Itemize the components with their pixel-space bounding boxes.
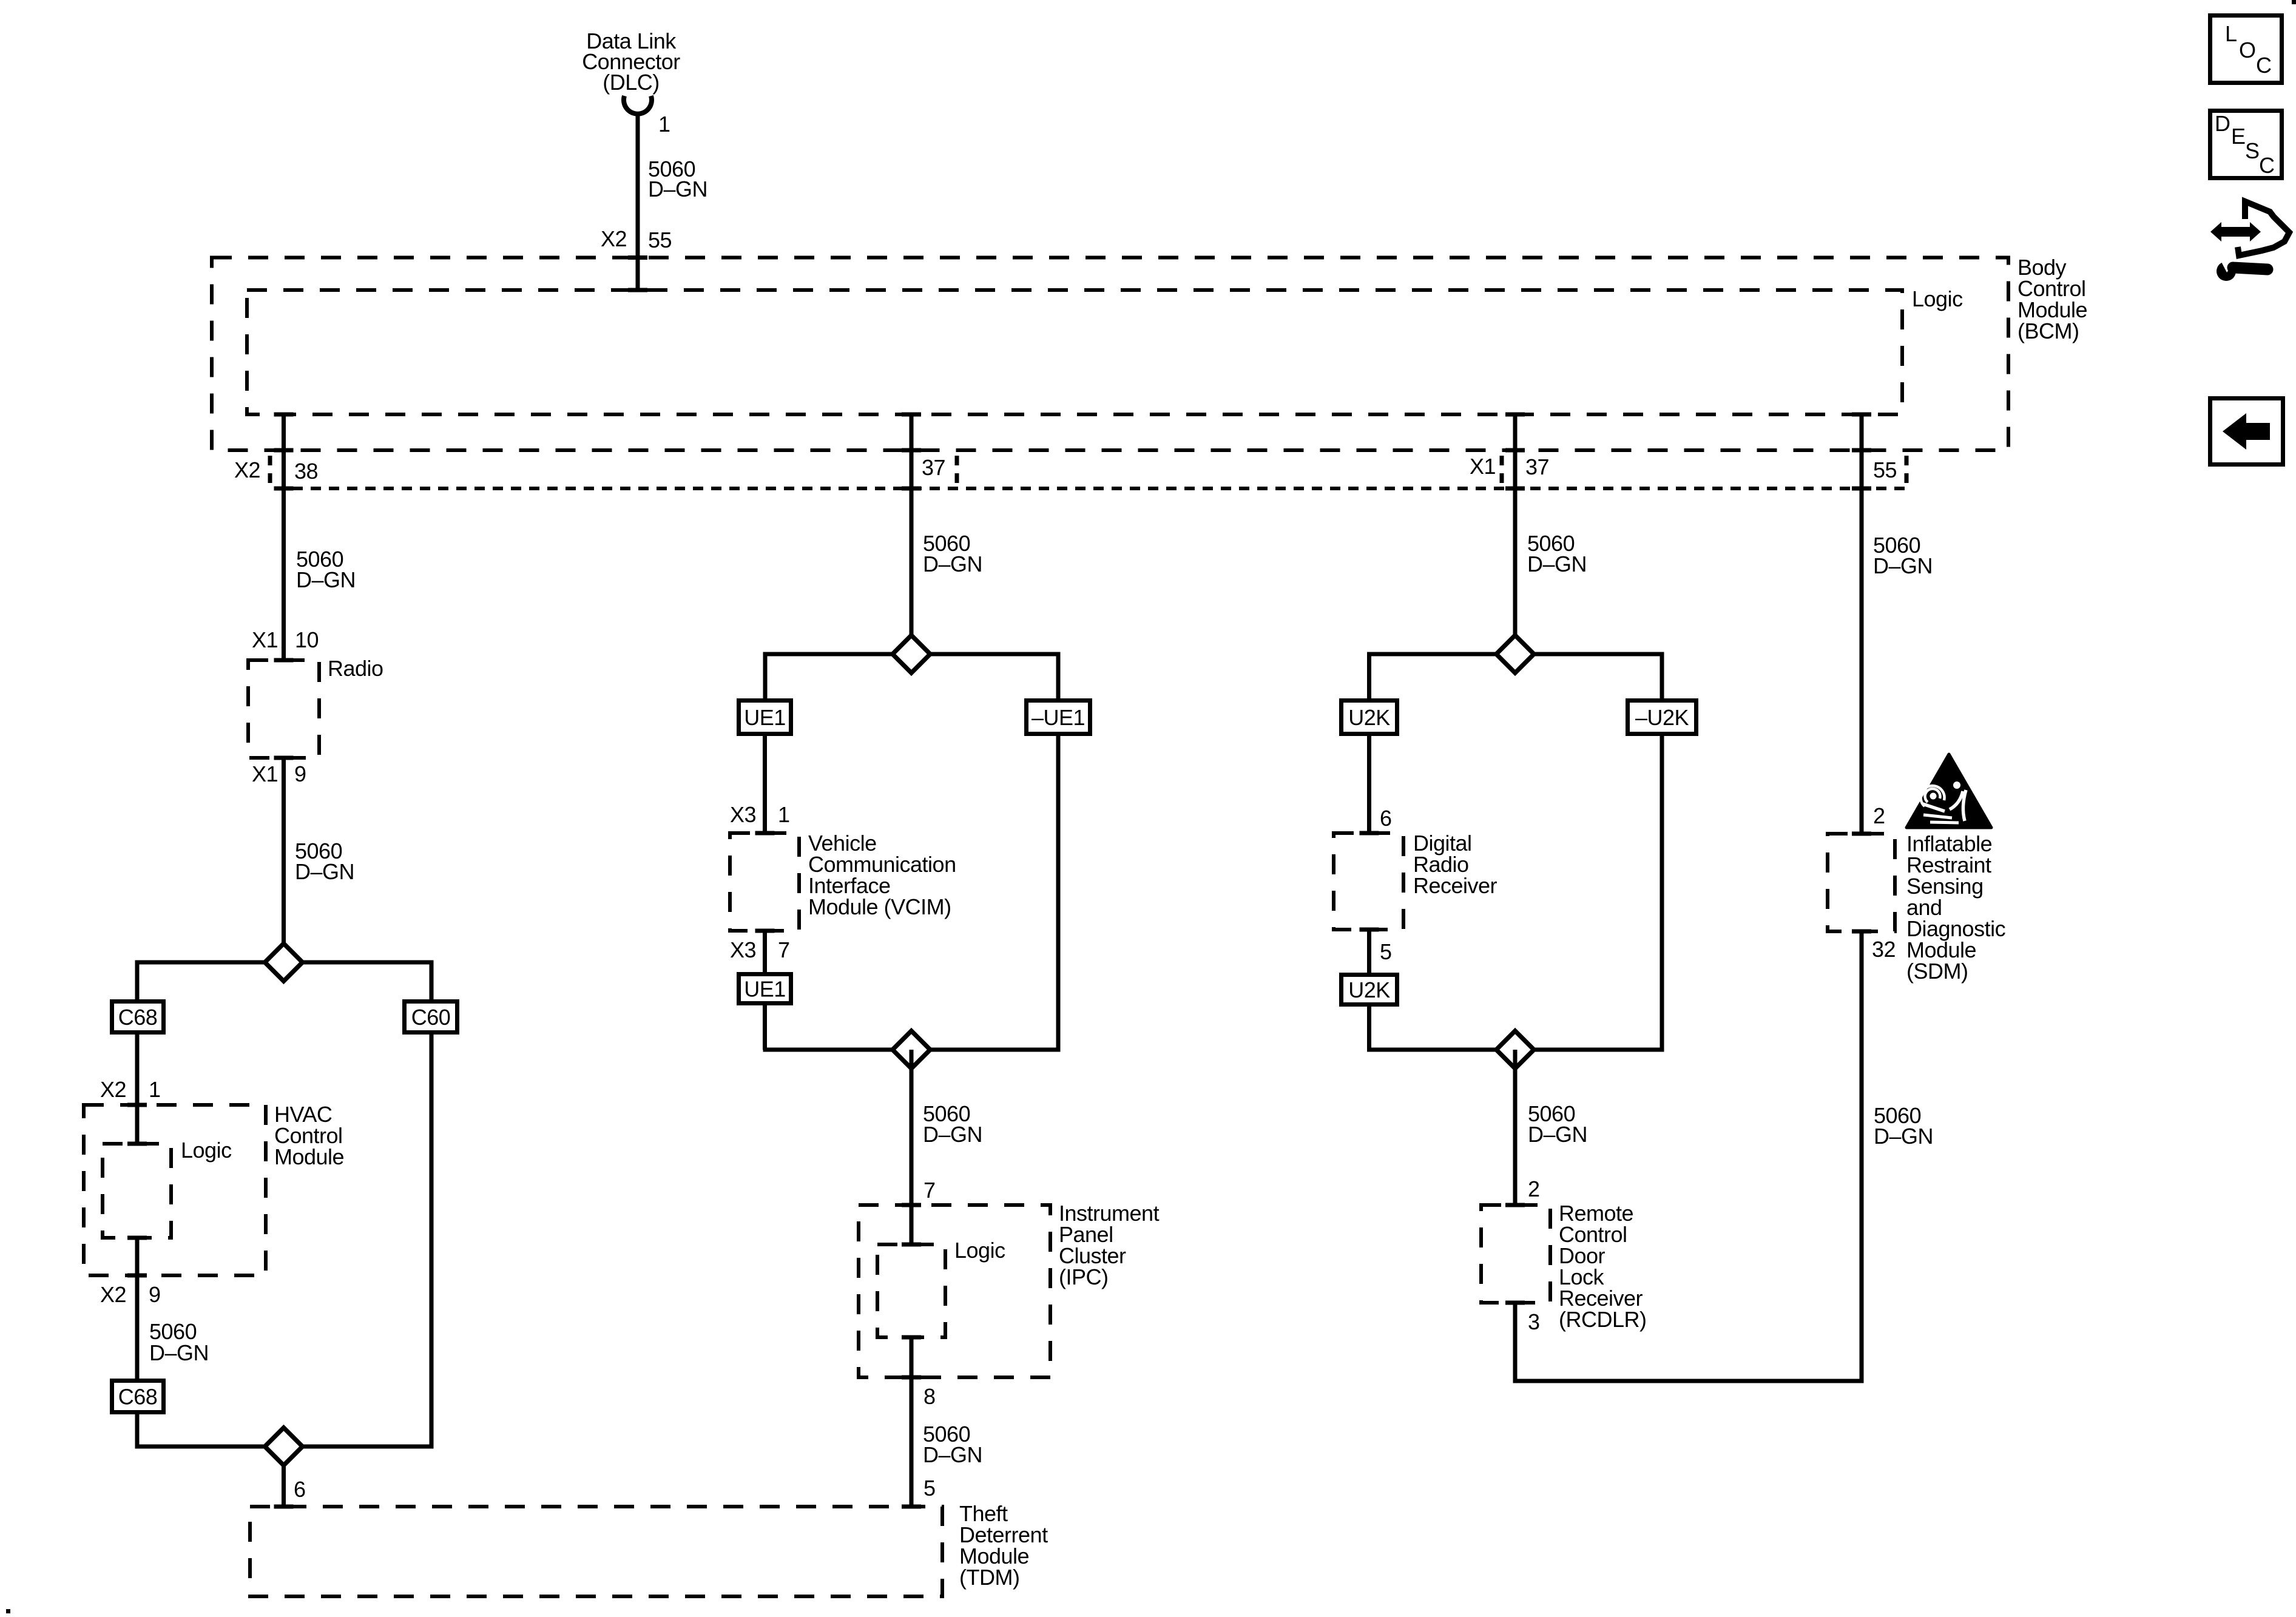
svg-text:Logic: Logic [1912,286,1963,311]
wire S1 to C68a [135,962,140,999]
module VCIM [730,833,799,931]
connector C68 (upper) [112,1002,164,1033]
wire bus splice S3 [763,1048,1061,1052]
pin tick VCIM in [755,831,775,836]
icon DESC box [2210,111,2282,178]
svg-text:X1: X1 [252,627,278,652]
svg-text:X3: X3 [730,802,756,827]
pin tick radio bottom [274,756,294,760]
connector DLC symbol (half-circle) [624,96,652,114]
svg-text:9: 9 [294,761,306,786]
svg-text:UE1: UE1 [744,977,786,1002]
wire bus splice S1 [135,960,434,965]
svg-text:2: 2 [1528,1176,1540,1201]
module Digital Radio Receiver [1334,833,1403,930]
svg-text:6: 6 [294,1477,306,1502]
wire S3 to IPC pin7 [910,1050,914,1244]
pin tick IPC boundary out [902,1376,921,1380]
wire S1 to C60 [430,962,434,999]
wire C68a to HVAC X2-1 [135,1035,140,1144]
page artifact mark top-right [2292,0,2296,4]
pin tick TDM in left [274,1505,294,1509]
wire bus splice S6 [135,1445,434,1449]
svg-text:5: 5 [1380,939,1392,964]
svg-text:–UE1: –UE1 [1032,705,1085,730]
svg-text:C68: C68 [118,1385,158,1409]
pin tick IPC logic out [902,1335,921,1340]
svg-text:Logic: Logic [181,1138,232,1163]
HVAC internal Logic block [103,1144,171,1238]
module HVAC Control Module boundary [84,1105,266,1275]
pin tick at BCM boundary [628,255,647,260]
pin tick BCM logic wire2 [902,413,921,417]
fuse U2K (lower) [1342,975,1397,1005]
wire BCM 55 to SDM pin2 [1860,414,1864,834]
splice S1 (diamond) [265,944,303,981]
svg-text:2: 2 [1873,803,1885,828]
wire Radio X1-9 to splice S1 [282,758,286,962]
svg-text:X1: X1 [252,761,278,786]
wire bus splice S5 [1367,1048,1664,1052]
wire IPC pin8 to TDM pin5 [910,1337,914,1507]
svg-text:8: 8 [923,1384,936,1409]
splice S5 (diamond) [1496,1031,1534,1068]
pin tick HVAC logic in [127,1142,147,1146]
pin tick at BCM logic [628,288,647,292]
fuse -U2K [1628,701,1697,734]
svg-text:55: 55 [648,228,672,252]
pin tick strip wire1 [274,487,294,491]
splice S2 (diamond) [893,635,930,673]
wire SDM pin32 down [1860,931,1864,1381]
pin tick RCDLR in [1505,1203,1525,1207]
svg-text:X2: X2 [234,457,260,482]
wire UE1a to VCIM X3-1 [763,736,767,833]
svg-text:C: C [2256,53,2272,78]
warning symbol air bag (SIR) triangle [1906,754,1991,828]
pin tick HVAC boundary out [127,1274,147,1278]
module SDM [1828,834,1895,931]
wire BCM 37 to splice S2 [910,414,914,654]
wire S2 to UE1a [763,654,768,698]
svg-text:C60: C60 [411,1005,451,1030]
wire DLC pin1 to BCM X2-55 [636,113,640,290]
splice S4 (diamond) [1496,635,1534,673]
svg-text:–U2K: –U2K [1635,705,1689,730]
svg-text:9: 9 [149,1282,161,1307]
svg-text:UE1: UE1 [744,705,786,730]
svg-text:5: 5 [923,1476,936,1501]
connector C68 (lower) [112,1381,164,1413]
svg-text:Radio: Radio [328,656,383,681]
wire C60 to splice S6 [430,1035,434,1447]
wire VCIM X3-7 to UE1b [763,931,767,972]
pin tick BCM boundary wire1 [274,448,294,453]
connector separator X1 left [1500,456,1504,486]
svg-text:1: 1 [149,1077,161,1102]
wire U2Ka to DRR pin6 [1367,736,1371,833]
wire bus splice S2 [763,652,1061,657]
wire bus splice S4 [1367,652,1664,657]
module BCM (Body Control Module) boundary [212,258,2008,451]
svg-text:E: E [2231,124,2246,149]
wire UE1b to splice S3 [763,1005,767,1050]
svg-text:55: 55 [1873,457,1897,482]
icon connector-view arrow with wrench [2210,201,2289,281]
splice S6 (diamond) [265,1428,303,1465]
fuse U2K (upper) [1342,701,1397,734]
pin tick BCM logic wire1 [274,413,294,417]
svg-text:37: 37 [1525,454,1549,479]
pin tick strip wire2 [902,487,921,491]
module TDM (Theft Deterrent Module) [250,1507,942,1596]
wire DRR pin5 to U2Kb [1367,930,1371,973]
wire S2 to -UE1 [1056,654,1061,698]
svg-text:1: 1 [778,802,790,827]
svg-text:6: 6 [1380,806,1392,831]
svg-text:7: 7 [923,1178,936,1203]
svg-text:X2: X2 [100,1077,126,1102]
pin tick strip wire4 [1852,487,1871,491]
pin tick BCM boundary wire3 [1505,448,1525,453]
pin tick DRR in [1360,831,1379,836]
svg-text:10: 10 [295,627,319,652]
wire U2Kb to splice S5 [1367,1007,1371,1050]
wire S4 to U2Ka [1367,654,1371,698]
wire BCM X2-38 to Radio X1-10 [282,414,286,660]
fuse UE1 (lower) [739,974,791,1004]
pin tick DRR out [1360,928,1379,932]
connector C60 [405,1002,458,1033]
wire S4 to -U2K [1660,654,1664,698]
svg-text:D: D [2215,111,2230,136]
pin tick BCM boundary wire2 [902,448,921,453]
svg-text:Logic: Logic [954,1238,1005,1263]
pin tick SDM out [1852,930,1871,934]
svg-text:S: S [2245,138,2260,163]
svg-text:38: 38 [294,459,318,484]
wire RCDLR pin3 down [1513,1303,1518,1381]
pin tick IPC boundary in [902,1203,921,1207]
pin tick BCM logic wire3 [1505,413,1525,417]
pin tick HVAC logic out [127,1236,147,1240]
splice S3 (diamond) [893,1031,930,1068]
pin tick SDM in [1852,832,1871,836]
svg-text:L: L [2225,21,2237,46]
pin tick radio top [274,658,294,663]
svg-text:32: 32 [1872,937,1896,962]
pin tick IPC logic in [902,1243,921,1247]
pin tick TDM in right [902,1505,921,1509]
wire S5 to RCDLR pin2 [1513,1050,1518,1205]
svg-text:X2: X2 [601,226,627,251]
svg-text:U2K: U2K [1348,977,1390,1002]
svg-text:U2K: U2K [1348,705,1390,730]
fuse -UE1 [1027,701,1090,734]
svg-text:37: 37 [922,455,945,480]
svg-text:X1: X1 [1470,454,1496,479]
svg-text:C68: C68 [118,1005,158,1030]
svg-text:1: 1 [658,112,670,137]
pin tick BCM logic wire4 [1852,413,1871,417]
svg-text:7: 7 [778,937,790,962]
BCM connector strip line [274,487,1906,490]
connector separator X1 right [1905,456,1909,486]
module RCDLR [1481,1205,1550,1303]
svg-text:X3: X3 [730,937,756,962]
pin tick BCM boundary wire4 [1852,448,1871,453]
svg-text:3: 3 [1528,1309,1540,1334]
pin tick VCIM out [755,929,775,933]
pin tick HVAC boundary in [127,1103,147,1107]
module IPC boundary [859,1205,1050,1377]
wire HVAC X2-9 to C68b [135,1238,140,1379]
IPC internal Logic block [877,1244,945,1337]
connector separator X2 left [268,456,272,486]
fuse UE1 (upper) [739,701,791,734]
wire -U2K to splice S5 [1660,736,1664,1050]
module Radio [248,660,319,758]
BCM internal Logic block [247,290,1902,414]
svg-text:C: C [2259,153,2275,178]
svg-text:O: O [2239,38,2256,62]
wire RCDLR to SDM link [1513,1379,1864,1383]
icon LOC box [2210,16,2282,83]
wire -UE1 to splice S3 [1056,736,1061,1050]
wire S6 to TDM pin6 [282,1447,286,1507]
svg-text:X2: X2 [100,1282,126,1307]
pin tick RCDLR out [1505,1301,1525,1305]
pin tick strip wire3 [1505,487,1525,491]
wire C68b to splice S6 [135,1414,140,1447]
icon back-arrow box [2210,399,2283,465]
wire BCM X1-37 to splice S4 [1513,414,1518,654]
connector separator X2 right [955,456,959,486]
page artifact dot bottom-left [6,1609,10,1613]
